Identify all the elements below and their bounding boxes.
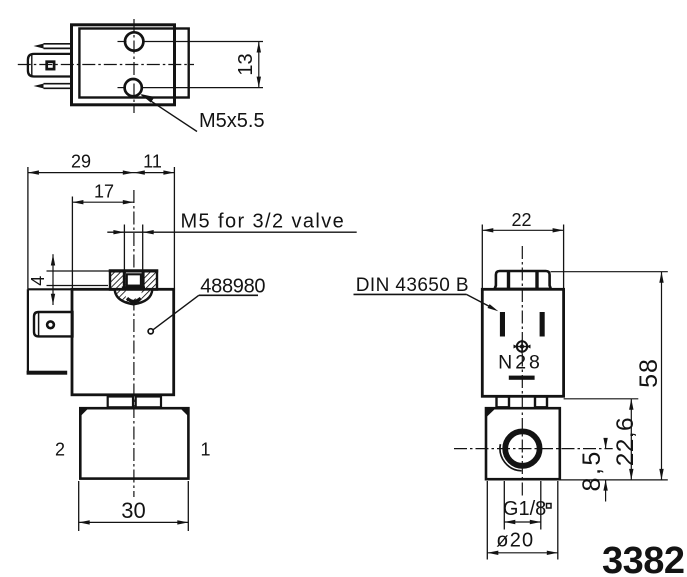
- extension line from lower hole to 13-dim: [142, 87, 263, 89]
- lower spade pin (top view): [34, 84, 72, 89]
- dimension text 13: [235, 53, 257, 75]
- svg-text:M5x5.5: M5x5.5: [199, 110, 265, 132]
- marking bar: [509, 376, 535, 380]
- extension line from upper hole to 13-dim: [144, 41, 263, 43]
- M5 nut with hatching (front view): [109, 271, 158, 305]
- leader line M5 for 3/2 valve: [107, 230, 356, 234]
- valve body (side view): [486, 408, 560, 479]
- front view vertical centerline: [133, 190, 135, 497]
- label M5x5.5: [199, 110, 265, 132]
- svg-text:11: 11: [143, 152, 162, 172]
- svg-text:22,6: 22,6: [612, 417, 639, 466]
- svg-text:29: 29: [71, 152, 91, 172]
- svg-text:2: 2: [55, 440, 65, 460]
- dimension text 30: [121, 498, 145, 523]
- diameter 20 extension lines: [487, 481, 558, 560]
- label N28: [498, 352, 543, 374]
- label DIN 43650 B with leader: [354, 275, 499, 311]
- dimension 4 extension lines: [47, 271, 111, 286]
- G1/8 extension lines: [504, 481, 541, 530]
- extension line coil bottom to 22,6-dim: [564, 398, 639, 400]
- coil body (front view): [72, 289, 174, 395]
- svg-text:13: 13: [235, 53, 257, 75]
- svg-text:8,5: 8,5: [578, 449, 606, 491]
- drawing number 3382: [602, 540, 685, 577]
- M5 hole extension lines: [124, 225, 142, 271]
- dimension text 58: [635, 358, 663, 388]
- top view coil body outline: [79, 29, 188, 98]
- dimension line diameter 20: [487, 551, 558, 555]
- svg-text:22: 22: [511, 210, 531, 230]
- center screw symbol: [514, 340, 531, 354]
- svg-text:DIN 43650 B: DIN 43650 B: [356, 275, 469, 296]
- dimension line 58: [659, 272, 663, 480]
- svg-text:1: 1: [200, 440, 210, 460]
- hole center tick lines: [118, 42, 127, 88]
- upper spade pin (top view): [34, 44, 72, 49]
- leader M5x5.5: [141, 94, 198, 132]
- dimension text 22: [511, 210, 531, 230]
- dimension line 13: [257, 42, 261, 88]
- connector housing (front view): [27, 289, 72, 374]
- top view connector cover outline: [72, 25, 175, 105]
- dimension line 30: [79, 520, 189, 524]
- svg-text:3382: 3382: [602, 540, 685, 577]
- dimension text 11: [143, 152, 162, 172]
- extension line x=72.4 for 17-dim: [71, 197, 73, 290]
- connector slot right (side view): [540, 312, 545, 337]
- dimension line 22: [482, 228, 563, 232]
- spade pin (front view): [34, 312, 73, 336]
- label M5 for 3/2 valve: [181, 211, 346, 233]
- 30-dim extension lines: [79, 481, 189, 531]
- port label 2: [55, 440, 65, 460]
- hex nut (side view): [495, 271, 551, 289]
- dimension 4 line with outside arrows: [51, 254, 55, 305]
- svg-text:ø20: ø20: [496, 530, 534, 552]
- 22-dim extension lines: [482, 225, 563, 290]
- svg-text:G1/8: G1/8: [503, 498, 546, 520]
- coil neck pieces (side view): [497, 397, 548, 408]
- dimension line 8,5 with outside arrows: [603, 438, 607, 502]
- leader 488980 with marker circle: [148, 295, 258, 334]
- dimension text 29: [71, 152, 91, 172]
- label diameter 20: [496, 530, 534, 552]
- svg-text:30: 30: [121, 498, 145, 523]
- top mounting hole upper circle: [125, 32, 143, 50]
- valve body (front view): [80, 408, 188, 478]
- coil neck pieces (front view): [108, 397, 161, 408]
- svg-text:58: 58: [635, 358, 663, 388]
- dimension text 4: [28, 276, 48, 286]
- dimension line 17: [72, 200, 133, 204]
- port label 1: [200, 440, 210, 460]
- port circle G1/8: [500, 431, 540, 470]
- label 488980: [200, 276, 265, 298]
- svg-text:M5 for 3/2 valve: M5 for 3/2 valve: [181, 211, 346, 233]
- side view vertical centerline: [521, 246, 523, 497]
- top view vertical centerline: [133, 19, 135, 113]
- dimension line G1/8: [504, 520, 541, 524]
- extension line right (coil right edge): [173, 167, 175, 288]
- dimension text 17: [94, 182, 114, 202]
- port horizontal centerline: [454, 448, 613, 450]
- svg-text:17: 17: [94, 182, 114, 202]
- coil body (side view): [482, 289, 563, 396]
- connector plug body (top view): [28, 54, 72, 77]
- dimension text 8,5: [578, 449, 606, 491]
- dimension text 22,6: [612, 417, 639, 466]
- svg-text:N28: N28: [498, 352, 543, 374]
- dimension line 29 / 11: [28, 170, 175, 174]
- label G1/8 with inch mark: [503, 498, 551, 520]
- svg-text:4: 4: [28, 276, 48, 286]
- connector slot left (side view): [500, 312, 505, 337]
- plug square hole: [47, 62, 54, 69]
- extension line valve bottom right: [560, 479, 668, 481]
- svg-text:488980: 488980: [200, 276, 265, 298]
- top mounting hole lower circle M5: [125, 79, 142, 96]
- extension line top (nut top to 58-dim): [551, 271, 668, 273]
- top view horizontal centerline: [18, 64, 194, 66]
- extension line left (plug edge): [27, 167, 29, 289]
- dimension line 22,6: [629, 399, 633, 480]
